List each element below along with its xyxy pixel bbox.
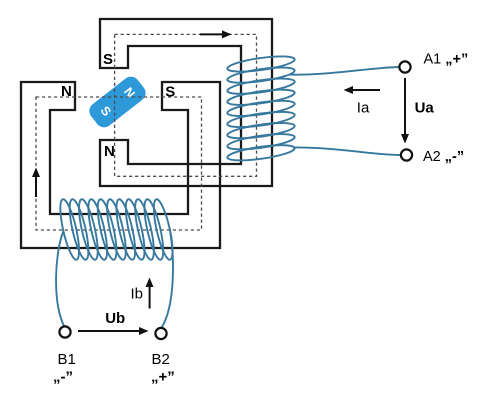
svg-text:N: N bbox=[61, 83, 72, 100]
svg-text:A1 „+”: A1 „+” bbox=[424, 52, 469, 68]
svg-text:S: S bbox=[103, 51, 113, 68]
svg-text:Ua: Ua bbox=[415, 100, 435, 117]
svg-text:S: S bbox=[165, 84, 175, 101]
svg-text:B2: B2 bbox=[152, 351, 170, 368]
svg-text:A2 „-”: A2 „-” bbox=[423, 149, 464, 165]
svg-text:B1: B1 bbox=[58, 351, 76, 368]
svg-text:Ib: Ib bbox=[131, 286, 144, 303]
svg-text:„-”: „-” bbox=[53, 369, 73, 386]
svg-text:Ia: Ia bbox=[357, 100, 370, 117]
svg-text:Ub: Ub bbox=[105, 310, 125, 327]
svg-text:„+”: „+” bbox=[151, 369, 175, 386]
svg-text:N: N bbox=[104, 143, 115, 160]
